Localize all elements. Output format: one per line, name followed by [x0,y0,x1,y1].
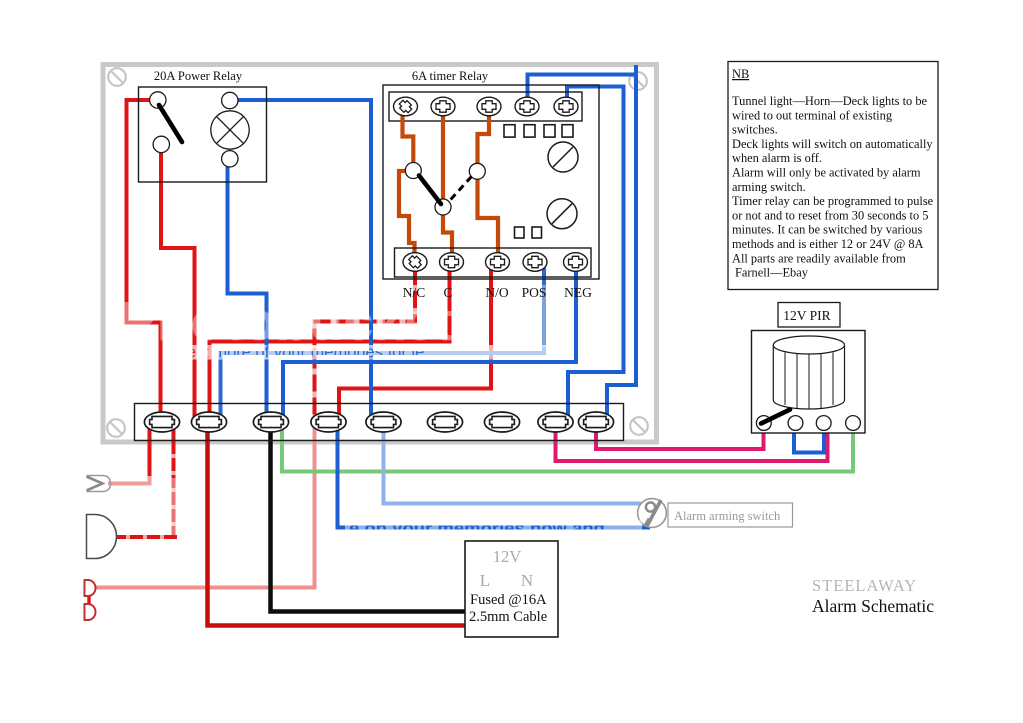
main terminal strip box [135,404,624,441]
timer top terminal 1 [394,97,418,116]
wire orange N/O branch [478,112,490,164]
corner screw top-right [629,72,647,90]
PIR terminal 1 [756,416,771,431]
lamp pin top [222,92,238,108]
svg-text:12V: 12V [493,547,522,566]
svg-text:L: L [480,571,490,590]
svg-text:2.5mm Cable: 2.5mm Cable [469,609,547,625]
wire orange N/O lower [478,178,499,252]
svg-text:or not and to reset from 30 se: or not and to reset from 30 seconds to 5 [732,208,929,222]
svg-text:switches.: switches. [732,123,778,137]
wire red relay switched out [161,150,195,422]
main strip terminal 8 [538,412,573,432]
horn symbol 2 [87,515,117,559]
main strip terminal 7 [484,412,519,432]
corner screw bottom-right [630,417,648,435]
wire light blue key switch [384,422,640,504]
svg-text:20A Power Relay: 20A Power Relay [154,69,243,83]
PIR box [752,331,866,434]
watermark band B [345,520,642,538]
timer bottom terminal 3 [486,253,510,272]
timer switch contact common [435,199,451,215]
svg-text:NEG: NEG [564,285,592,300]
timer top terminal 3 [477,97,501,116]
main strip terminal 5 [366,412,401,432]
svg-text:Deck lights will switch on aut: Deck lights will switch on automatically [732,137,933,151]
main strip terminal 2 [191,412,226,432]
timer bottom terminal 1 [403,253,427,272]
timer bottom terminal strip [395,248,592,277]
timer bottom terminal 5 [564,253,588,272]
svg-text:N/O: N/O [485,285,509,300]
svg-text:minutes. It can be switched by: minutes. It can be switched by various [732,223,922,237]
wire black neutral to 12V box [271,422,469,612]
PIR cylinder stripes [785,353,833,410]
wire blue alarm arming [338,422,649,528]
PIR cylinder top [773,336,844,354]
corner screw top-left [108,68,126,86]
wire red relay feed L [127,100,161,422]
svg-text:6A timer Relay: 6A timer Relay [412,69,489,83]
wire red dashed horn 2 [115,422,176,537]
svg-text:Photobucket: Photobucket [120,290,453,352]
svg-text:All parts are readily availabl: All parts are readily available from [732,251,906,265]
wire dark red supply to 12V box [208,422,469,626]
wire blue lamp return [228,166,267,422]
PIR cylinder body [773,345,844,409]
PIR tamper lever [761,410,790,424]
horn symbol 1 [87,476,111,492]
timer switch contact left [405,163,421,179]
svg-text:wired to out terminal of exist: wired to out terminal of existing [732,108,892,122]
wire blue relay coil feed [238,100,371,422]
relay K1 switch lever [159,105,182,142]
timer dip square 3 [544,125,555,137]
wire pink base timer N/C [315,270,416,422]
timer pot screw 1 [548,142,578,172]
wire green earth to PIR [282,421,853,472]
relay K1 pin bottom-left [153,136,169,152]
svg-text:when alarm is off.: when alarm is off. [732,151,822,165]
timer pot screw 2 [547,199,577,229]
timer internal wiring orange [399,112,498,252]
timer dip square 1 [504,125,515,137]
svg-text:methods and is either 12 or 24: methods and is either 12 or 24V @ 8A [732,237,924,251]
indicator D2 [85,604,96,620]
main panel border [103,65,657,443]
NB note box [728,62,938,290]
PIR terminal 2 [788,416,803,431]
svg-text:Fused @16A: Fused @16A [470,592,547,608]
key switch symbol [638,499,667,528]
timer dip square 4 [562,125,573,137]
svg-text:POS: POS [522,285,547,300]
timer switch lever dashed [448,177,472,203]
indicator D1 [85,580,96,596]
wire pink indicator D1 [95,421,315,588]
wire orange N/C lower [399,171,415,252]
wire blue POS pale upper [542,287,546,345]
svg-text:Alarm Schematic: Alarm Schematic [812,596,934,616]
svg-text:12V PIR: 12V PIR [783,308,830,323]
svg-text:Alarm arming switch: Alarm arming switch [674,509,781,523]
lamp symbol cross [216,116,243,143]
wire red dashed timer N/C [315,270,416,422]
main strip terminal 6 [427,412,462,432]
wire magenta T9 to PIR [596,422,764,449]
wire red horn 1 top [148,422,152,474]
timer switch contact right [469,163,485,179]
svg-text:arming switch.: arming switch. [732,180,806,194]
wire blue top stub [634,65,638,75]
watermark band A [170,345,560,360]
svg-text:Timer relay can be programmed: Timer relay can be programmed to pulse [732,194,934,208]
svg-text:NB: NB [732,67,749,81]
timer top terminal 5 [554,97,578,116]
wire orange N/C branch [403,112,414,163]
relay K1 pin top-left [150,92,166,108]
timer dip square 2 [524,125,535,137]
timer U1 box [383,85,599,279]
main strip terminal 9 [578,412,613,432]
timer top terminal 2 [431,97,455,116]
svg-text:Tunnel light—Horn—Deck lights: Tunnel light—Horn—Deck lights to be [732,94,928,108]
svg-text:STEELAWAY: STEELAWAY [812,576,917,595]
corner screw bottom-left [107,419,125,437]
lamp symbol circle [211,111,249,149]
timer bottom terminal 4 [523,253,547,272]
wire magenta T8 to PIR [556,422,828,461]
svg-text:N: N [521,571,533,590]
wire pink horn 1 [110,472,150,484]
wire red D connector [87,595,90,605]
timer bottom terminal 2 [440,253,464,272]
PIR terminal 3 [816,416,831,431]
svg-text:Farnell—Ebay: Farnell—Ebay [735,266,809,280]
supply 12V box [465,541,558,637]
wire horn 2 pale overlay [171,478,175,535]
main strip terminal 3 [253,412,288,432]
svg-text:Alarm will only be activated b: Alarm will only be activated by alarm [732,166,921,180]
wire blue timer NEG [283,270,576,422]
wire blue PIR link [794,427,824,453]
timer top terminal 4 [515,97,539,116]
NB note text [732,67,934,280]
wire blue timer top out 1 [528,75,637,423]
wire red timer C [210,270,450,422]
main strip terminal 1 [144,412,179,432]
PIR terminal 4 [846,416,861,431]
timer top terminal strip [389,92,582,121]
lamp pin bottom [222,151,238,167]
wire pink base horn 2 [115,422,174,537]
wire blue timer top out 2 [567,87,624,423]
wire blue timer POS [221,267,545,422]
wire horn 2 red top [172,422,176,452]
main strip terminal 4 [311,412,346,432]
timer small square 2 [532,227,542,238]
alarm arming switch label box [668,503,793,527]
relay K1 box [139,87,267,182]
WIRES-LAYER [89,75,853,626]
wire orange common lower [443,215,452,252]
wire orange common upper [441,112,445,199]
PIR label box [778,303,840,328]
timer small square 1 [515,227,525,238]
timer switch lever solid [419,176,441,205]
wire red timer N/O [339,270,491,422]
